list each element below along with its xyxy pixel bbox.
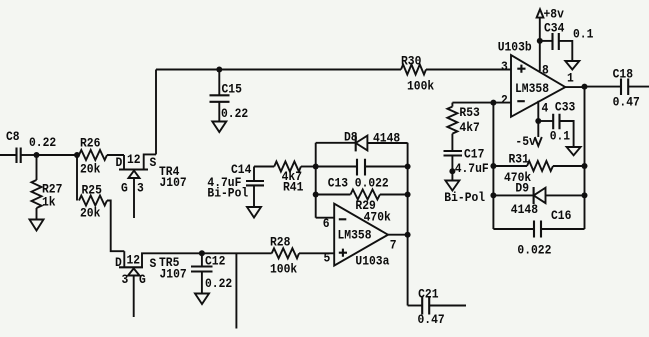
capacitor C33	[538, 100, 575, 148]
svg-text:C15: C15	[222, 82, 243, 97]
svg-text:D: D	[115, 255, 122, 270]
wire output node vertical	[407, 143, 409, 306]
resistor R25	[77, 155, 124, 251]
svg-text:20k: 20k	[80, 162, 101, 177]
svg-text:0.22: 0.22	[29, 135, 56, 150]
svg-text:+8v: +8v	[544, 7, 565, 22]
power +8v	[537, 7, 564, 72]
capacitor C14	[207, 162, 264, 207]
ground (C15)	[212, 122, 226, 133]
wire C12 node to R28	[202, 252, 272, 254]
wire feedback left vertical	[492, 103, 494, 229]
capacitor C12	[191, 253, 232, 293]
wire feedback right vertical	[584, 87, 586, 229]
op-amp U103b LM358	[498, 40, 574, 117]
svg-text:0.22: 0.22	[205, 276, 232, 291]
svg-text:8: 8	[542, 63, 549, 78]
svg-text:3: 3	[122, 272, 129, 287]
resistor R30	[401, 54, 434, 94]
svg-text:R53: R53	[459, 105, 480, 120]
node R41/C13 junction	[313, 164, 319, 170]
svg-text:-5v: -5v	[515, 134, 536, 149]
diode D9 4148	[493, 181, 584, 218]
svg-text:R26: R26	[80, 136, 101, 151]
svg-text:LM358: LM358	[515, 81, 549, 96]
capacitor C18	[585, 67, 649, 110]
node output U103b junction	[582, 84, 588, 90]
resistor R53	[447, 103, 480, 151]
node D9 left junction	[490, 192, 496, 198]
svg-text:J107: J107	[160, 175, 187, 190]
svg-text:G: G	[139, 272, 146, 287]
svg-text:20k: 20k	[80, 206, 101, 221]
svg-text:S: S	[150, 256, 157, 271]
svg-text:1: 1	[567, 71, 574, 86]
svg-text:4k7: 4k7	[459, 120, 479, 135]
wire node A to node B	[37, 154, 78, 156]
svg-text:C33: C33	[555, 100, 576, 115]
svg-text:12: 12	[127, 253, 141, 268]
svg-text:100k: 100k	[270, 262, 297, 277]
svg-text:4: 4	[542, 101, 549, 116]
wire U103b pin 4	[537, 101, 539, 137]
svg-text:LM358: LM358	[338, 228, 372, 243]
svg-text:4148: 4148	[373, 131, 400, 146]
svg-text:Bi-Pol: Bi-Pol	[444, 190, 485, 205]
capacitor C8	[6, 129, 56, 163]
capacitor C15	[210, 70, 249, 122]
node A junction	[34, 152, 40, 158]
ground (C12)	[195, 294, 209, 305]
resistor R28	[270, 235, 334, 277]
wire R30 to U103b pin 3	[426, 69, 511, 71]
node pin8/C34 junction	[537, 38, 543, 44]
wire U103b output	[565, 86, 584, 88]
node R29 right junction	[405, 192, 411, 198]
ground (C34)	[565, 61, 579, 70]
svg-text:C12: C12	[205, 254, 226, 269]
capacitor C17	[444, 147, 489, 206]
svg-text:0.1: 0.1	[550, 129, 571, 144]
svg-text:1k: 1k	[42, 195, 56, 210]
svg-text:100k: 100k	[407, 79, 434, 94]
wire U103b pin 2	[452, 102, 511, 104]
ground (C17)	[445, 181, 459, 191]
capacitor C21	[408, 287, 466, 328]
svg-text:R28: R28	[270, 235, 291, 250]
svg-text:D: D	[116, 155, 123, 170]
capacitor C16	[493, 208, 584, 258]
svg-text:Bi-Pol: Bi-Pol	[207, 186, 248, 201]
ground (C33)	[567, 147, 581, 155]
svg-text:3: 3	[137, 181, 144, 196]
svg-text:0.022: 0.022	[517, 243, 551, 258]
node R31 left junction	[490, 163, 496, 169]
svg-text:12: 12	[127, 152, 141, 167]
node pin2/feedback junction	[490, 100, 496, 106]
wire inverting node vertical	[315, 143, 317, 218]
resistor R41	[254, 162, 316, 195]
svg-text:C21: C21	[418, 287, 439, 302]
svg-text:6: 6	[323, 216, 330, 231]
svg-text:R25: R25	[82, 183, 103, 198]
wire TR4 source riser to top rail	[155, 70, 157, 155]
transistor TR4 J107	[116, 152, 187, 218]
svg-text:0.1: 0.1	[573, 27, 594, 42]
svg-text:4.7uF: 4.7uF	[455, 161, 489, 176]
svg-text:0.47: 0.47	[418, 312, 445, 327]
svg-text:R30: R30	[401, 54, 422, 69]
svg-text:R31: R31	[509, 152, 530, 167]
wire input left	[0, 154, 17, 156]
svg-text:7: 7	[390, 238, 397, 253]
svg-text:C16: C16	[551, 208, 572, 223]
resistor R27	[32, 155, 63, 220]
svg-text:0.47: 0.47	[613, 95, 640, 110]
wire top rail	[156, 69, 401, 71]
wire stub down from pin5 net	[235, 253, 237, 328]
svg-text:S: S	[150, 155, 157, 170]
capacitor C34	[540, 21, 594, 62]
node pin4/C33 junction	[535, 118, 541, 124]
svg-text:C34: C34	[544, 21, 565, 36]
svg-text:0.22: 0.22	[221, 106, 248, 121]
svg-text:4148: 4148	[511, 202, 538, 217]
svg-text:U103b: U103b	[498, 40, 532, 55]
node C12 junction	[199, 250, 205, 256]
node R31 right junction	[582, 163, 588, 169]
resistor R26	[79, 136, 124, 177]
node B junction	[74, 152, 80, 158]
node R29 left junction	[313, 192, 319, 198]
ground (C14)	[247, 207, 261, 218]
node output U103a junction	[405, 232, 411, 238]
node D9 right junction	[582, 192, 588, 198]
capacitor C13	[316, 159, 408, 191]
node C13 right junction	[405, 164, 411, 170]
svg-text:5: 5	[324, 251, 331, 266]
power -5v	[515, 134, 541, 149]
svg-text:R41: R41	[283, 180, 304, 195]
svg-text:D8: D8	[344, 130, 358, 145]
svg-text:2: 2	[501, 93, 508, 108]
svg-text:C17: C17	[464, 147, 484, 162]
svg-text:J107: J107	[160, 267, 187, 282]
node C15 junction	[216, 67, 222, 73]
svg-text:G: G	[121, 181, 128, 196]
svg-text:3: 3	[501, 59, 508, 74]
diode D8 4148	[316, 130, 408, 152]
svg-text:U103a: U103a	[355, 254, 389, 269]
svg-text:C13 0.022: C13 0.022	[328, 176, 389, 191]
svg-text:C18: C18	[613, 67, 634, 82]
svg-text:D9: D9	[515, 181, 529, 196]
resistor R29	[316, 190, 408, 225]
ground (R27)	[30, 220, 44, 231]
op-amp U103a LM358	[316, 204, 408, 269]
resistor R31	[493, 152, 584, 186]
svg-text:C8: C8	[6, 129, 20, 144]
transistor TR5 J107	[115, 251, 202, 317]
